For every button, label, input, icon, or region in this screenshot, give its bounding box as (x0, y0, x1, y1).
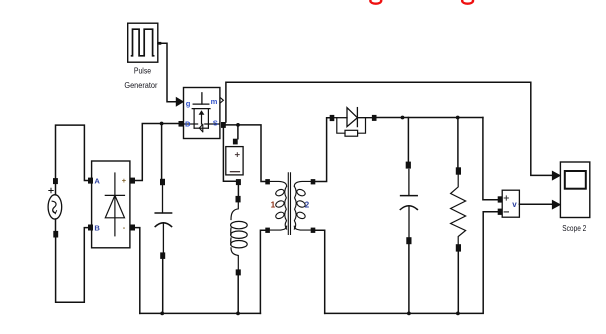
port C2 bottom (406, 237, 411, 244)
wire: bridge - output down to left rail (135, 228, 140, 314)
port C1 top (160, 179, 165, 185)
port AC bottom (53, 231, 58, 238)
mosfet icon: middle leg with up arrow (201, 114, 203, 124)
pulse generator output nub (158, 42, 161, 45)
MOSFET block U1 (184, 88, 220, 139)
wire: diode output row (377, 117, 483, 119)
wire: right ground rail and riser to v- (325, 212, 498, 314)
wire: C1 tap down (161, 124, 163, 179)
mosfet icon: internal diode (199, 125, 202, 132)
mosfet icon: gate bar (193, 103, 209, 105)
port snubber top (233, 139, 238, 145)
svg-text:A: A (94, 177, 100, 186)
capacitor C1 (155, 185, 171, 252)
wire: secondary bottom to right rail (315, 230, 324, 313)
svg-text:-: - (123, 223, 126, 232)
wire: v output to scope input 2 (519, 203, 552, 205)
wire: C1 bottom to left rail (162, 259, 164, 314)
svg-text:Generator: Generator (124, 80, 157, 90)
port S square (221, 122, 226, 128)
snubber block (series RC, +/- icon) (226, 147, 243, 175)
secondary winding (294, 181, 311, 230)
mosfet icon: D lead (184, 123, 198, 125)
port diode cathode (372, 115, 377, 121)
mosfet icon: S lead (205, 123, 220, 125)
arrowhead into gate g (176, 98, 183, 107)
core lines (288, 173, 290, 235)
port v- (498, 209, 503, 215)
svg-text:B: B (94, 224, 100, 233)
bridge rectifier block (universal bridge) (92, 161, 130, 248)
pulse generator block (128, 23, 158, 62)
wire: R bottom to right rail (457, 252, 459, 314)
AC voltage source (48, 188, 62, 219)
wire: left ground rail (140, 312, 261, 314)
wire: inductor bottom to left rail (237, 275, 239, 313)
svg-text:1: 1 (271, 201, 276, 210)
capacitor C2 (400, 169, 417, 237)
svg-text:+: + (122, 176, 127, 185)
inductor L (magnetizing branch) (231, 202, 248, 269)
mosfet icon: right leg (207, 109, 209, 129)
wire: secondary top to diode (315, 118, 329, 182)
wire: S junction down to snubber top (237, 125, 239, 139)
port inductor top (236, 196, 241, 203)
port secondary bottom (311, 228, 316, 233)
port AC top (53, 178, 58, 184)
wire: AC top lead (55, 184, 57, 195)
junction R tap (456, 116, 460, 120)
resistor R load (451, 175, 466, 245)
arrowhead into scope input 2 (552, 200, 560, 209)
junction left rail C1 (160, 312, 164, 316)
label Pulse Generator (124, 65, 157, 89)
wire: snubber bottom to inductor top (237, 185, 239, 196)
svg-text:Scope 2: Scope 2 (562, 223, 586, 233)
junction C1 tap (160, 122, 164, 126)
wire: AC top to bridge input A (56, 125, 89, 180)
mosfet icon: channel bar (192, 108, 210, 110)
wire: C2 bottom to right rail (408, 244, 410, 313)
port - out (130, 225, 135, 231)
transformer (linear) (270, 173, 311, 235)
wire: AC bottom lead (55, 219, 57, 231)
junction diode row (401, 116, 405, 120)
port diode anode (330, 115, 335, 121)
wire: long feedback from S node to scope input 1 (226, 82, 553, 175)
port inductor bottom (236, 269, 241, 275)
title text second g descender (462, 0, 473, 4)
port R bottom (456, 244, 461, 251)
mosfet icon: bottom loop (194, 127, 208, 129)
wire: S node row to transformer primary top (226, 125, 265, 182)
port D square (179, 121, 184, 127)
wire: diode row right end down to v+ (483, 118, 498, 200)
junction right rail C2 (407, 312, 411, 316)
anode lead (334, 117, 347, 119)
port + out (130, 178, 135, 184)
port primary top (265, 179, 270, 184)
title text (red, cut off at top): descender of letter g (370, 0, 381, 4)
port secondary top (311, 179, 316, 184)
port R top (456, 167, 461, 174)
bridge diode icon: cathode bar (105, 194, 124, 196)
port C1 bottom (160, 252, 165, 259)
diode block D1 with snubber icon (330, 108, 377, 137)
mosfet icon: gate stem (201, 93, 203, 104)
junction left rail L (236, 312, 240, 316)
svg-text:g: g (186, 99, 191, 108)
cathode lead (357, 117, 372, 119)
svg-text:2: 2 (305, 201, 310, 210)
arrowhead into scope input 1 (552, 171, 560, 180)
diode cathode bar (356, 108, 358, 127)
svg-text:S: S (213, 119, 218, 128)
mosfet icon: left leg (193, 109, 195, 129)
wire: C2 tap down (407, 118, 409, 162)
port A (88, 178, 93, 184)
port snubber bottom (236, 179, 241, 185)
scope block (560, 162, 589, 218)
svg-text:D: D (185, 119, 191, 128)
wire: pulse generator output to MOSFET gate (158, 43, 177, 102)
svg-text:m: m (211, 97, 218, 106)
port B (88, 225, 93, 231)
wire: bypass from S port down around to snubber bottom (223, 128, 236, 181)
wire: left rail up to transformer primary bottom (260, 230, 265, 313)
bridge diode icon: triangle (105, 195, 124, 217)
bridge diode icon: vertical line (114, 173, 116, 236)
port v+ (498, 196, 503, 202)
wire: R tap down (457, 118, 459, 168)
svg-text:v: v (512, 200, 517, 209)
port primary bottom (265, 228, 270, 233)
svg-text:Pulse: Pulse (134, 65, 151, 75)
port C2 top (406, 162, 411, 169)
junction S node (236, 123, 240, 127)
wire: AC bottom loop to bridge input B (56, 228, 88, 303)
voltage measurement block (502, 190, 519, 217)
snubber loop with resistor box (337, 118, 345, 134)
m output chevron (220, 98, 223, 103)
wire: bridge + output up to MOSFET D (135, 124, 179, 181)
primary winding (270, 181, 287, 230)
junction right rail R (456, 312, 460, 316)
diode triangle (347, 108, 357, 127)
